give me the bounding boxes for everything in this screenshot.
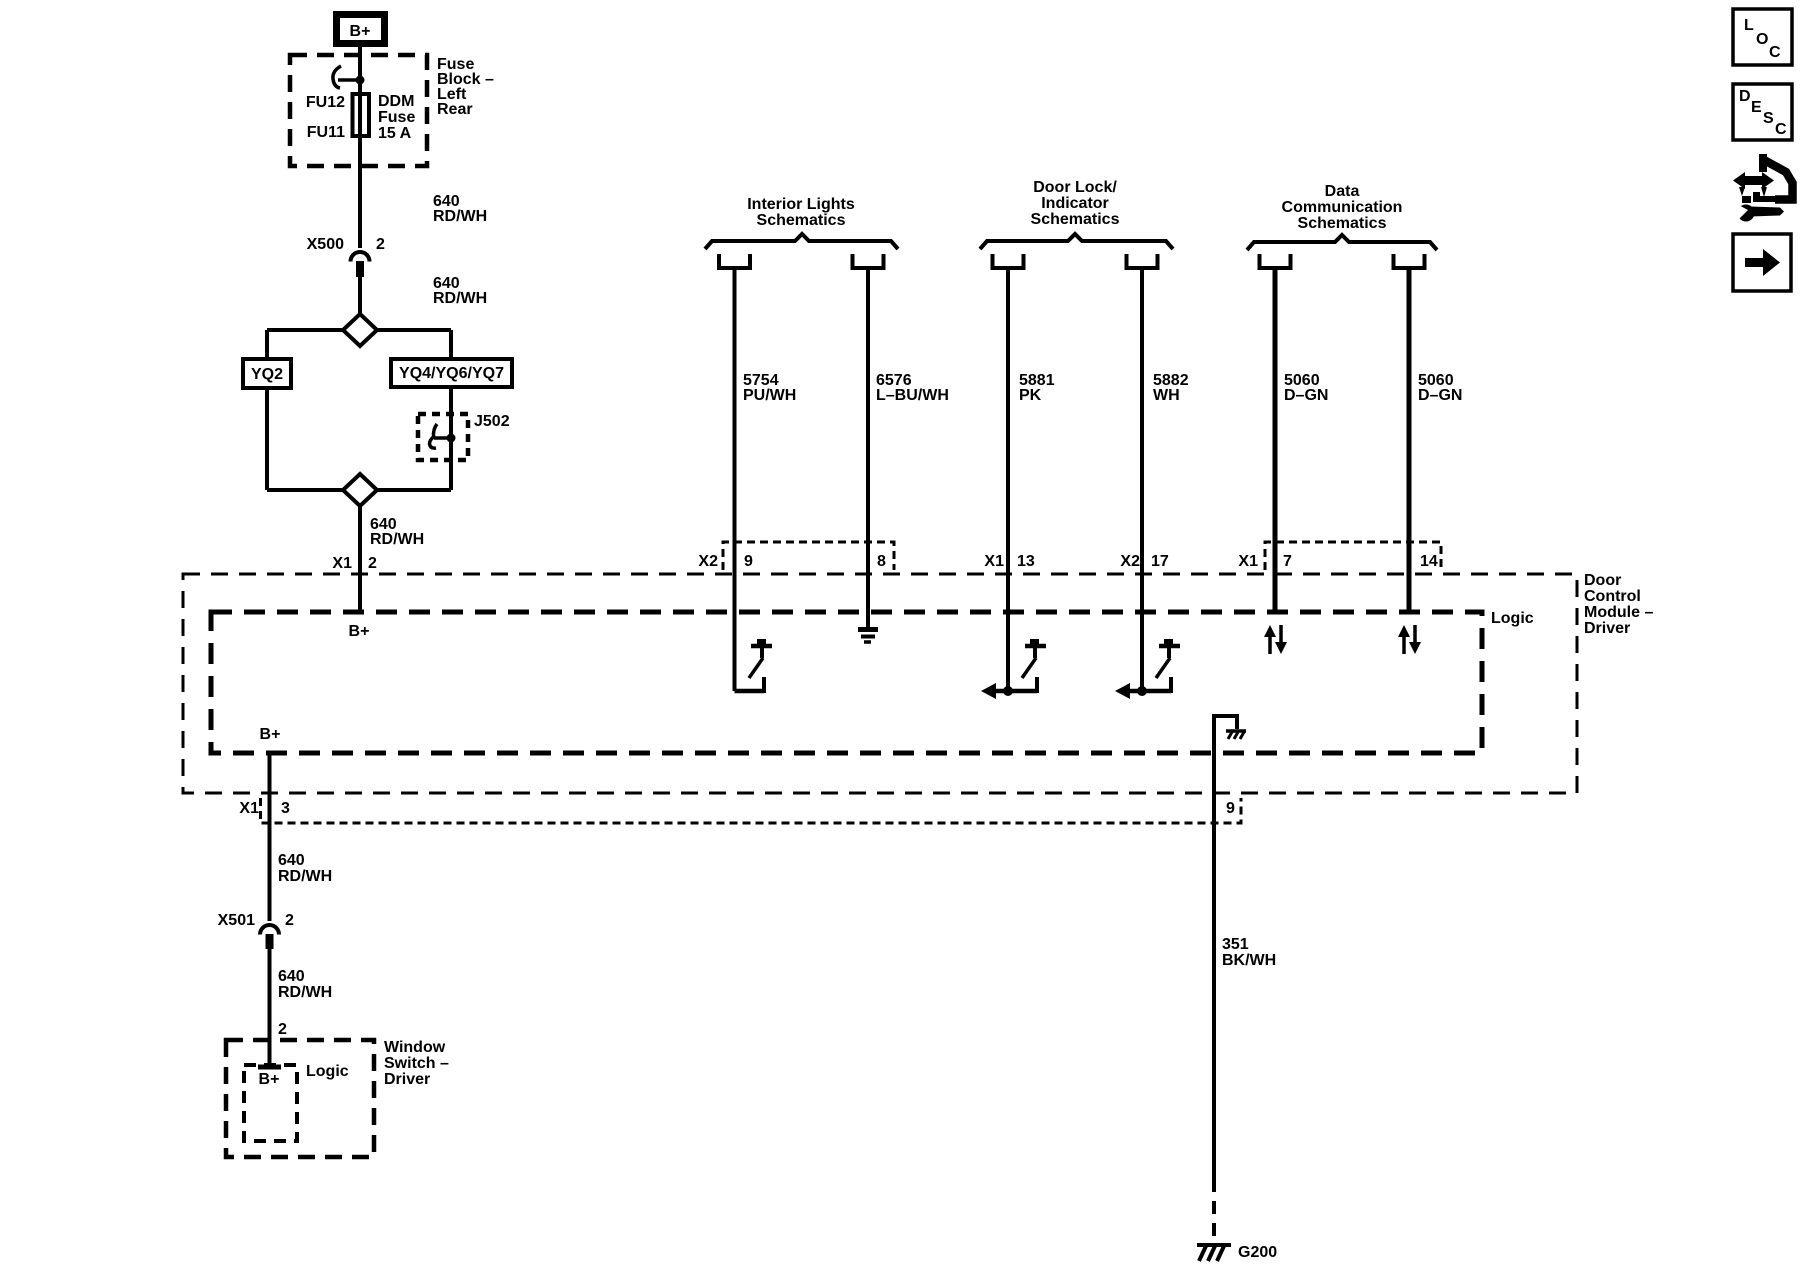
svg-text:13: 13 xyxy=(1017,553,1035,570)
svg-text:L: L xyxy=(1744,17,1754,34)
svg-text:YQ2: YQ2 xyxy=(251,366,283,383)
svg-text:2: 2 xyxy=(376,236,385,253)
svg-text:Fuse: Fuse xyxy=(378,109,415,126)
svg-text:640: 640 xyxy=(278,852,305,869)
svg-text:FU12: FU12 xyxy=(306,94,345,111)
svg-text:X1: X1 xyxy=(332,555,352,572)
svg-text:Driver: Driver xyxy=(1584,620,1630,637)
svg-text:2: 2 xyxy=(285,912,294,929)
svg-text:G200: G200 xyxy=(1238,1244,1277,1261)
svg-text:C: C xyxy=(1775,121,1787,138)
svg-text:2: 2 xyxy=(278,1021,287,1038)
svg-text:X500: X500 xyxy=(307,236,344,253)
svg-text:PU/WH: PU/WH xyxy=(743,387,796,404)
svg-text:S: S xyxy=(1763,110,1774,127)
svg-text:FU11: FU11 xyxy=(307,124,345,141)
svg-text:Schematics: Schematics xyxy=(757,212,846,229)
svg-text:B+: B+ xyxy=(259,1071,280,1088)
svg-text:17: 17 xyxy=(1151,553,1169,570)
svg-text:PK: PK xyxy=(1019,387,1042,404)
svg-text:9: 9 xyxy=(1226,800,1235,817)
svg-text:X1: X1 xyxy=(1238,553,1258,570)
svg-text:Communication: Communication xyxy=(1282,199,1403,216)
svg-text:D–GN: D–GN xyxy=(1418,387,1462,404)
svg-text:J502: J502 xyxy=(474,413,510,430)
svg-text:Interior Lights: Interior Lights xyxy=(747,196,855,213)
svg-text:Data: Data xyxy=(1325,183,1360,200)
svg-text:Switch –: Switch – xyxy=(384,1055,449,1072)
svg-text:7: 7 xyxy=(1283,553,1292,570)
svg-text:B+: B+ xyxy=(349,623,370,640)
svg-text:BK/WH: BK/WH xyxy=(1222,952,1276,969)
svg-text:8: 8 xyxy=(877,553,886,570)
svg-text:2: 2 xyxy=(368,555,377,572)
svg-text:Module –: Module – xyxy=(1584,604,1653,621)
svg-text:RD/WH: RD/WH xyxy=(278,984,332,1001)
svg-text:RD/WH: RD/WH xyxy=(433,290,487,307)
svg-text:O: O xyxy=(1756,31,1768,48)
svg-text:D: D xyxy=(1739,88,1751,105)
svg-text:Window: Window xyxy=(384,1039,446,1056)
svg-text:351: 351 xyxy=(1222,936,1249,953)
svg-text:Control: Control xyxy=(1584,588,1641,605)
svg-text:E: E xyxy=(1751,99,1762,116)
svg-text:X1: X1 xyxy=(239,800,259,817)
svg-text:Schematics: Schematics xyxy=(1031,211,1120,228)
svg-text:Logic: Logic xyxy=(1491,610,1534,627)
svg-text:640: 640 xyxy=(278,968,305,985)
svg-text:9: 9 xyxy=(744,553,753,570)
svg-text:Door: Door xyxy=(1584,572,1621,589)
svg-text:X2: X2 xyxy=(1120,553,1140,570)
svg-text:Indicator: Indicator xyxy=(1041,195,1109,212)
svg-text:RD/WH: RD/WH xyxy=(433,208,487,225)
svg-text:X2: X2 xyxy=(698,553,718,570)
svg-text:Rear: Rear xyxy=(437,101,473,118)
svg-text:YQ4/YQ6/YQ7: YQ4/YQ6/YQ7 xyxy=(399,365,504,382)
svg-text:B+: B+ xyxy=(350,23,371,40)
svg-text:L–BU/WH: L–BU/WH xyxy=(876,387,949,404)
svg-text:DDM: DDM xyxy=(378,93,414,110)
svg-text:X1: X1 xyxy=(984,553,1004,570)
svg-text:14: 14 xyxy=(1420,553,1438,570)
svg-text:D–GN: D–GN xyxy=(1284,387,1328,404)
svg-text:15 A: 15 A xyxy=(378,125,412,142)
svg-text:X501: X501 xyxy=(218,912,255,929)
svg-text:RD/WH: RD/WH xyxy=(370,531,424,548)
svg-text:3: 3 xyxy=(281,800,290,817)
svg-text:Schematics: Schematics xyxy=(1298,215,1387,232)
svg-text:C: C xyxy=(1769,44,1781,61)
svg-text:WH: WH xyxy=(1153,387,1180,404)
svg-text:Logic: Logic xyxy=(306,1063,349,1080)
svg-text:Door Lock/: Door Lock/ xyxy=(1033,179,1117,196)
svg-text:RD/WH: RD/WH xyxy=(278,868,332,885)
svg-text:B+: B+ xyxy=(260,726,281,743)
svg-text:Driver: Driver xyxy=(384,1071,430,1088)
